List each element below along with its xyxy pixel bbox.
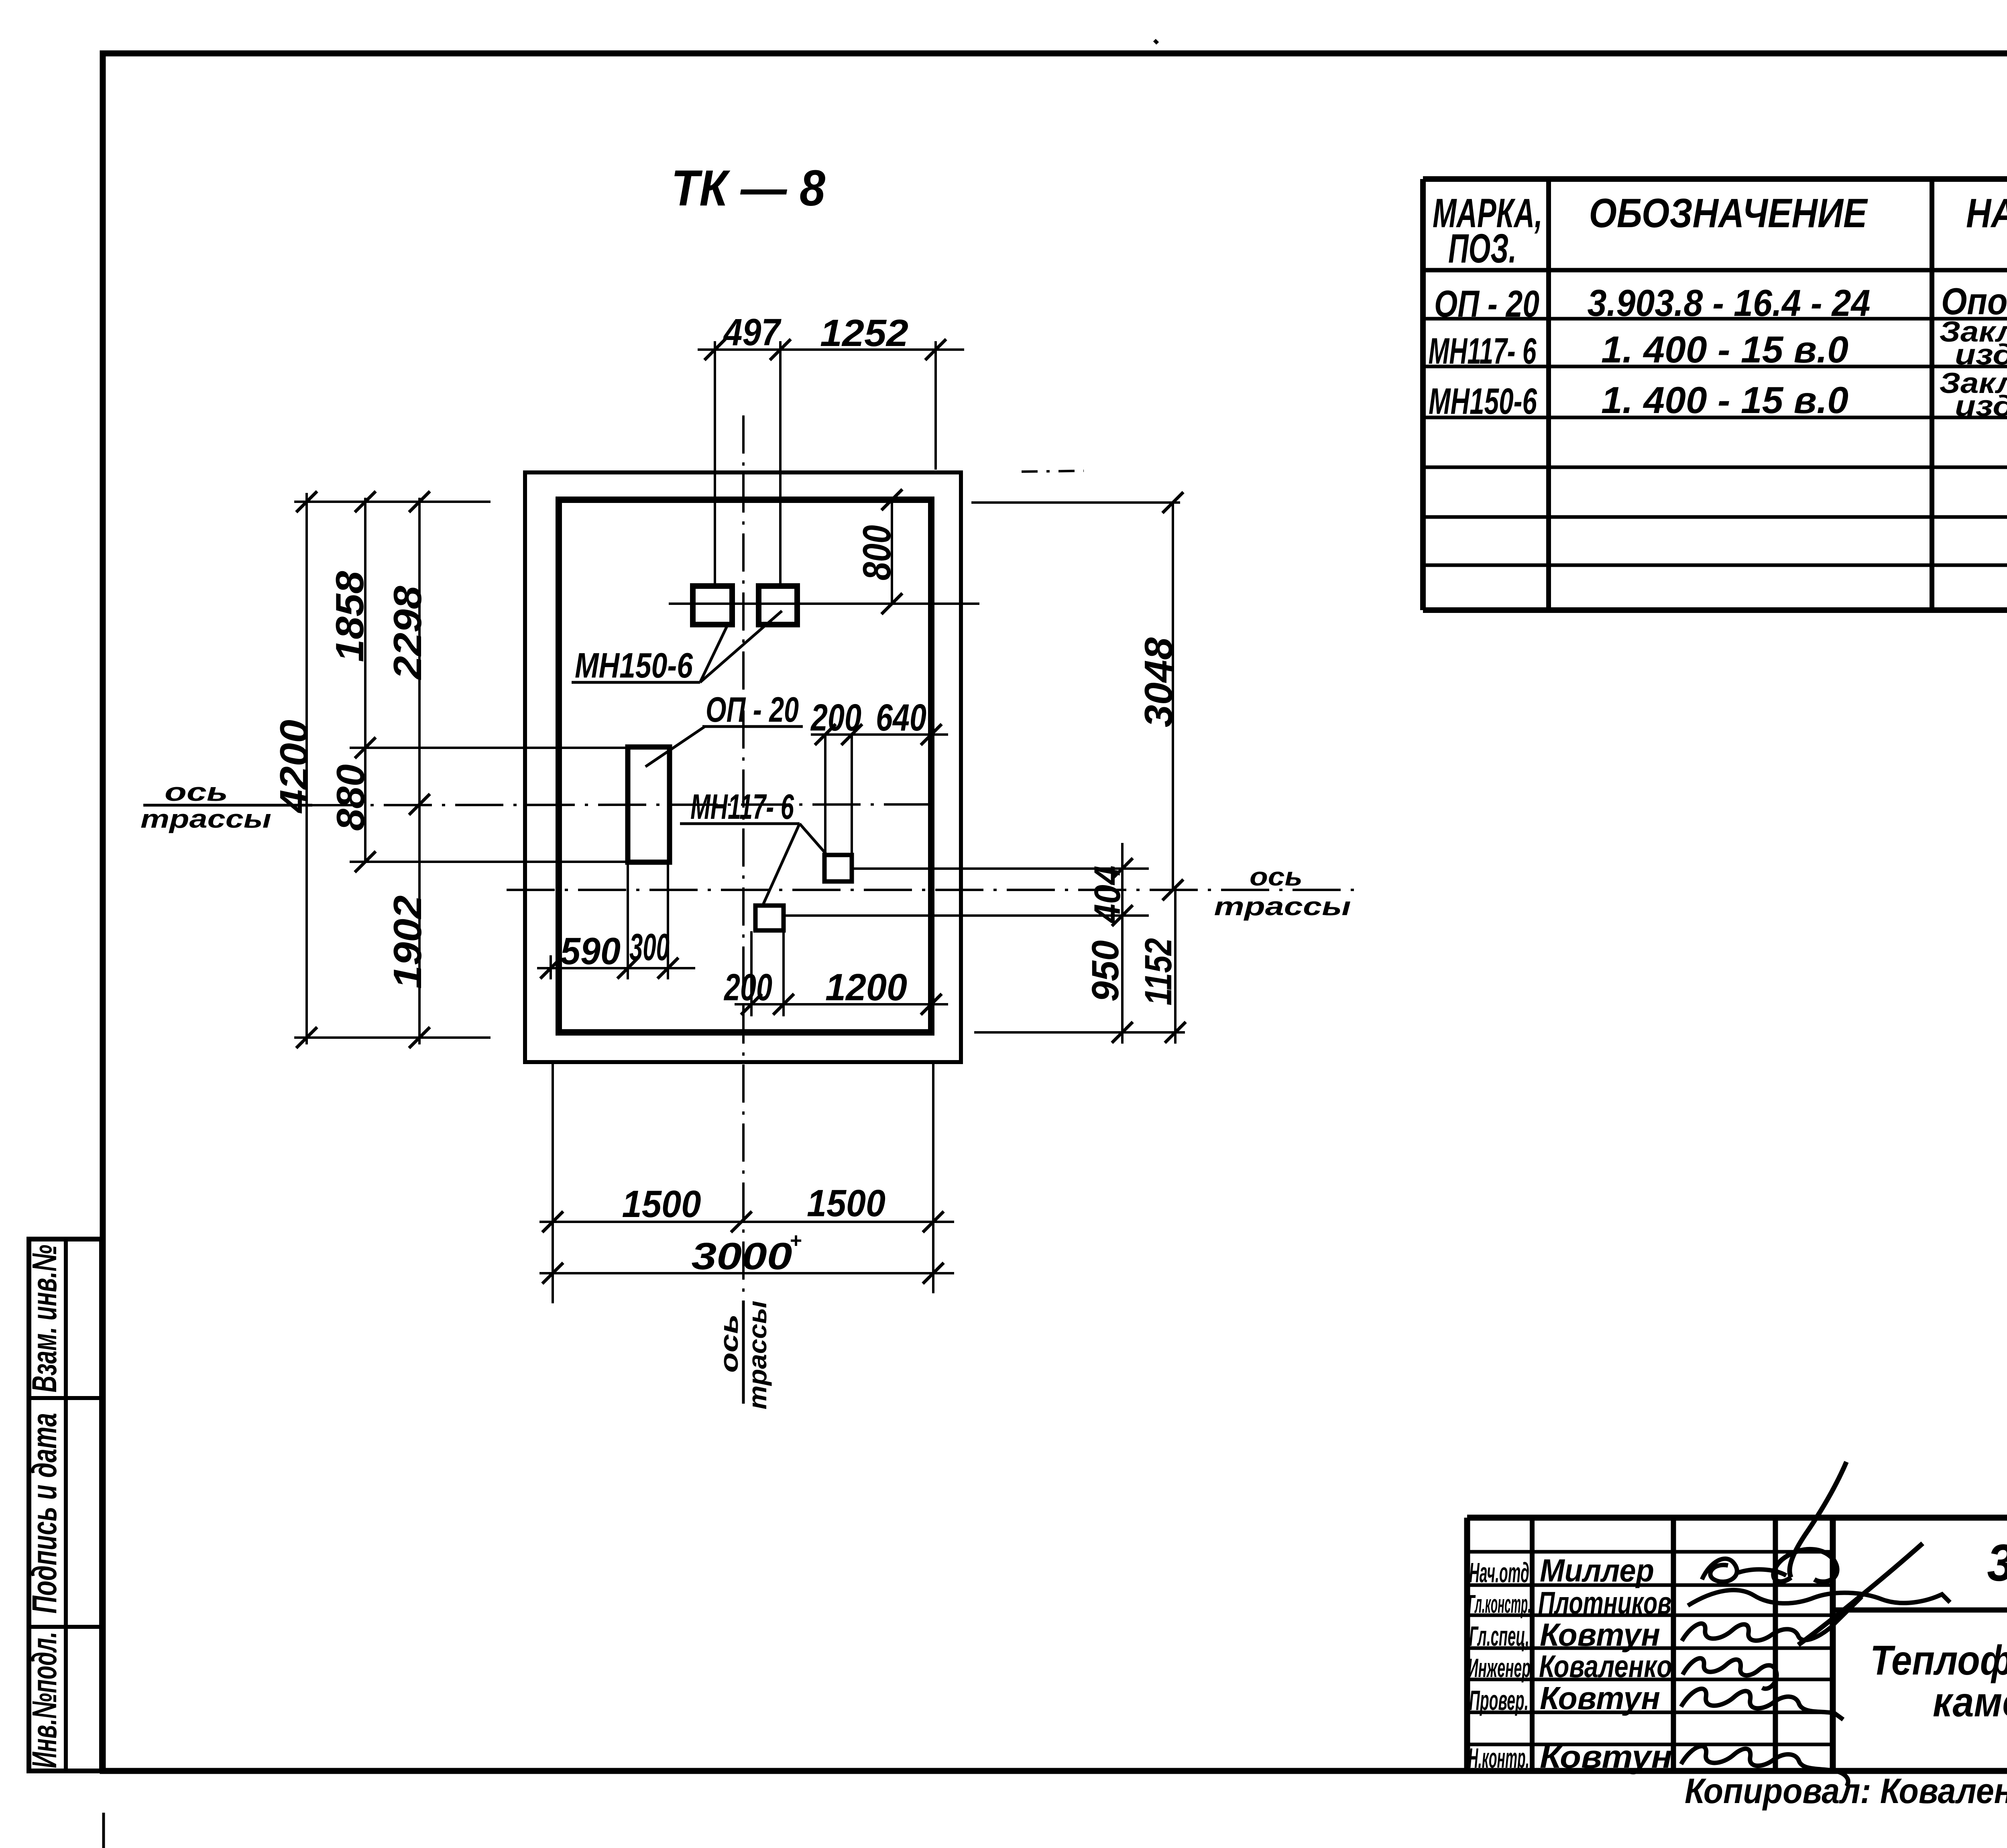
dim line 200 1200 <box>735 1003 948 1005</box>
embed MN150-6 square 2 <box>759 586 797 625</box>
dim line 200 640 <box>811 733 948 736</box>
tick 880 bottom <box>355 851 376 872</box>
tick 1200 right <box>921 994 942 1015</box>
extension MN117-6 bottom center <box>784 914 1149 917</box>
svg-text:Инженер: Инженер <box>1468 1653 1531 1683</box>
vertical axis centerline solid end <box>742 1301 745 1404</box>
extension OP-20 top <box>350 747 627 749</box>
tick 3000 left <box>542 1263 563 1284</box>
svg-text:МН150-6: МН150-6 <box>575 645 693 685</box>
right trace axis centerline <box>507 889 1361 891</box>
dim 640 extension a <box>824 734 826 853</box>
svg-text:590: 590 <box>560 930 621 973</box>
dim 590 extension b <box>627 863 629 979</box>
dim 590 extension a <box>550 955 552 979</box>
svg-text:3000: 3000 <box>692 1235 792 1278</box>
svg-text:ось: ось <box>714 1314 743 1373</box>
label MN117-6 underline <box>680 822 800 825</box>
chamber outer wall <box>525 472 961 1062</box>
top dimension line 497 1252 <box>698 348 964 351</box>
svg-text:ось: ось <box>165 777 228 806</box>
svg-text:1902: 1902 <box>385 896 429 989</box>
chamber inner wall <box>559 500 931 1032</box>
signature kovtun prover <box>1681 1689 1843 1720</box>
svg-text:1. 400 - 15 в.0: 1. 400 - 15 в.0 <box>1601 328 1848 370</box>
dim line 3048 <box>1172 502 1174 891</box>
spec table row line 6 <box>1423 564 2007 567</box>
signature plotnikov <box>1688 1590 1950 1606</box>
leader MN150-6 to sq1 <box>700 623 729 682</box>
title block col names <box>1671 1518 1676 1771</box>
svg-text:МН117- 6: МН117- 6 <box>690 787 794 826</box>
tick 3000 right <box>923 1263 944 1284</box>
spec table bottom border <box>1423 607 2007 613</box>
dim line 800 <box>891 499 893 604</box>
vertical axis centerline <box>742 415 745 1301</box>
label MN150-6 underline <box>572 681 700 684</box>
left dim line A 4200 <box>305 493 308 1044</box>
tick 404 top <box>1112 858 1133 879</box>
svg-text:640: 640 <box>876 696 926 739</box>
squares centerline extension <box>669 602 979 605</box>
spec table left border <box>1420 179 1426 610</box>
title block row line 3 <box>1467 1614 1833 1617</box>
spec table col line marka <box>1546 179 1551 610</box>
leader OP-20 <box>645 727 705 767</box>
svg-text:МН117- 6: МН117- 6 <box>1429 331 1537 372</box>
top dim extension sq1 <box>714 341 716 587</box>
title block row line 6 <box>1467 1711 1833 1714</box>
title block row line 7 <box>1467 1743 1833 1746</box>
svg-text:Инв.№подл.: Инв.№подл. <box>25 1632 64 1768</box>
svg-text:ОП - 20: ОП - 20 <box>1434 283 1539 325</box>
dim line 590 300 <box>537 967 695 969</box>
bottom extension left 1500 <box>552 1064 554 1303</box>
label OP-20 underline <box>702 725 803 728</box>
svg-text:Ковтун: Ковтун <box>1540 1739 1672 1775</box>
svg-text:Взам. инв.№: Взам. инв.№ <box>25 1245 64 1392</box>
svg-text:Нач.отд: Нач.отд <box>1469 1557 1529 1588</box>
left trace axis centerline solid part <box>143 804 312 807</box>
tick 1858 top <box>355 491 376 512</box>
tick 1500 left <box>542 1211 563 1232</box>
tick 800 bottom <box>881 593 902 614</box>
bottom right extension line <box>974 1031 1185 1034</box>
left dim line B 1858 880 <box>364 498 366 863</box>
tick 497 right <box>770 339 791 360</box>
tick 4200 top <box>296 491 317 512</box>
top dim extension right <box>934 341 937 470</box>
left trace axis centerline <box>312 804 939 805</box>
svg-text:Плотников: Плотников <box>1538 1585 1671 1620</box>
svg-text:+: + <box>790 1229 802 1252</box>
svg-text:Провер.: Провер. <box>1469 1685 1529 1716</box>
svg-text:Подпись и дата: Подпись и дата <box>25 1413 64 1614</box>
svg-text:200: 200 <box>723 966 772 1009</box>
tick 1152 bottom <box>1165 1022 1186 1043</box>
title block top border <box>1467 1515 2007 1521</box>
tick 200b right <box>841 724 862 745</box>
tick 590 left <box>540 958 561 979</box>
tick 1902 bottom <box>409 1027 430 1048</box>
left top extension line <box>294 501 491 503</box>
spec table row line 2 <box>1423 365 2007 368</box>
svg-text:камера ТК-8: камера ТК-8 <box>1933 1679 2007 1726</box>
signature kovtun nkontr <box>1681 1746 1848 1786</box>
tick 800 top <box>881 489 902 510</box>
svg-text:1200: 1200 <box>825 966 907 1009</box>
stray dot above frame <box>1154 40 1158 43</box>
tick 4200 bottom <box>296 1027 317 1048</box>
tick 590 right <box>617 958 638 979</box>
dim 640 extension b <box>851 734 853 853</box>
doc number cell bottom <box>1833 1608 2007 1613</box>
svg-text:3.903.8 - 16.4 - 8: 3.903.8 - 16.4 - 8 <box>1987 1533 2007 1592</box>
svg-text:Ковтун: Ковтун <box>1540 1617 1660 1653</box>
spec table header bottom line <box>1423 268 2007 273</box>
title block row line 1 <box>1467 1550 1833 1554</box>
svg-text:404: 404 <box>1087 866 1128 924</box>
svg-text:трассы: трассы <box>743 1301 772 1410</box>
svg-text:4200: 4200 <box>272 720 316 814</box>
tick 3048 top <box>1162 492 1183 513</box>
dim line 1152 <box>1174 891 1177 1044</box>
svg-text:200: 200 <box>810 696 861 739</box>
tick 1858 bottom <box>355 737 376 758</box>
svg-text:1858: 1858 <box>328 571 372 662</box>
svg-text:950: 950 <box>1084 940 1127 1002</box>
svg-text:800: 800 <box>855 525 899 580</box>
left strip outer box <box>29 1239 102 1771</box>
svg-text:1500: 1500 <box>807 1182 885 1225</box>
tick 1500 mid <box>731 1211 752 1232</box>
tick 300 right <box>657 958 678 979</box>
svg-text:Н.контр.: Н.контр. <box>1468 1742 1529 1774</box>
tick 497 left <box>704 339 725 360</box>
bottom extension right 1500 <box>932 1064 934 1293</box>
svg-text:3048: 3048 <box>1136 637 1181 727</box>
signature kovalenko <box>1683 1658 1777 1689</box>
svg-text:Теплофикационная: Теплофикационная <box>1870 1637 2007 1684</box>
tick 200b left <box>815 724 836 745</box>
spec table row line 5 <box>1423 515 2007 519</box>
title block row line 2 <box>1467 1583 1833 1587</box>
tick 640 right <box>921 724 942 745</box>
dim 200 extension b <box>782 931 785 1016</box>
svg-text:Гл.констр.: Гл.констр. <box>1468 1590 1531 1618</box>
svg-text:ПОЗ.: ПОЗ. <box>1448 226 1516 271</box>
svg-text:Гл.спец,: Гл.спец, <box>1469 1620 1529 1652</box>
tick 2298 top <box>409 491 430 512</box>
svg-text:изделие: изделие <box>1955 390 2007 422</box>
svg-text:трассы: трассы <box>140 804 271 833</box>
svg-text:1252: 1252 <box>820 312 908 354</box>
tick 1252 right <box>925 339 946 360</box>
tick 404 bottom <box>1112 905 1133 926</box>
embed MN150-6 square 1 <box>693 586 732 625</box>
tick 950 bottom <box>1112 1022 1133 1043</box>
svg-text:1. 400 - 15 в.0: 1. 400 - 15 в.0 <box>1601 379 1848 421</box>
svg-text:880: 880 <box>328 764 372 831</box>
svg-text:ТК — 8: ТК — 8 <box>671 160 825 216</box>
svg-text:300: 300 <box>629 926 670 969</box>
dim line 3000 <box>539 1272 954 1274</box>
dim 200 extension a <box>750 931 753 1016</box>
tick 1500 right <box>923 1211 944 1232</box>
svg-text:Миллер: Миллер <box>1540 1553 1654 1588</box>
tick 200a left <box>741 994 762 1015</box>
left strip mid vertical <box>64 1239 68 1771</box>
extension OP-20 bottom <box>350 861 627 863</box>
spec table top border <box>1423 176 2007 182</box>
extension MN117-6 right center <box>853 867 1149 870</box>
svg-text:1500: 1500 <box>622 1183 701 1225</box>
title block row line 5 <box>1467 1678 1833 1681</box>
svg-text:ОП - 20: ОП - 20 <box>706 690 799 729</box>
left bottom extension line <box>294 1036 491 1039</box>
left dim line C 2298 1902 <box>418 498 421 1044</box>
title block col date <box>1830 1518 1836 1771</box>
svg-text:2298: 2298 <box>385 586 429 680</box>
title block left border <box>1464 1518 1470 1771</box>
svg-text:изделие: изделие <box>1955 339 2007 371</box>
stray mark below frame left <box>102 1813 105 1848</box>
svg-text:НАИМЕНОВАНИЕ: НАИМЕНОВАНИЕ <box>1966 190 2007 236</box>
spec table row line 4 <box>1423 466 2007 469</box>
svg-text:трассы: трассы <box>1214 892 1351 921</box>
inner top extension right <box>971 501 1180 504</box>
dim line 404 950 <box>1121 843 1124 1044</box>
svg-text:1152: 1152 <box>1137 938 1180 1005</box>
signature kovtun gl spec <box>1682 1597 1862 1641</box>
svg-text:ось: ось <box>1250 862 1303 891</box>
signature flourish rows 1-2 <box>1790 1462 1846 1577</box>
dim 590 extension c <box>667 863 669 979</box>
stray dash-dot at outer top right <box>1022 471 1084 472</box>
tick 2298 bottom <box>409 794 430 815</box>
embed MN117-6 right <box>824 855 852 881</box>
left strip divider 1 <box>29 1396 102 1400</box>
title block col signatures <box>1773 1518 1778 1771</box>
svg-text:МН150-6: МН150-6 <box>1429 381 1537 422</box>
svg-text:Коваленко: Коваленко <box>1539 1649 1672 1684</box>
title block row line 4 <box>1467 1647 1833 1650</box>
tick 3048 bottom <box>1162 879 1183 900</box>
top dim extension sq2 <box>779 341 782 587</box>
leader MN117-6 to right square <box>800 824 828 856</box>
svg-text:3.903.8 - 16.4 - 24: 3.903.8 - 16.4 - 24 <box>1588 282 1871 324</box>
left strip divider 2 <box>29 1625 102 1629</box>
svg-text:Ковтун: Ковтун <box>1540 1680 1660 1716</box>
embed MN117-6 bottom <box>755 906 784 930</box>
title block col labels <box>1530 1518 1535 1771</box>
spec table row line 1 <box>1423 317 2007 321</box>
tick 200a right <box>773 994 794 1015</box>
leader MN150-6 to sq2 <box>700 611 782 682</box>
support OP-20 <box>628 747 670 862</box>
svg-text:497: 497 <box>723 311 782 354</box>
leader MN117-6 to bottom square <box>763 824 800 906</box>
spec table col line oboznachenie <box>1930 179 1934 610</box>
spec table row line 3 <box>1423 416 2007 419</box>
svg-text:ОБОЗНАЧЕНИЕ: ОБОЗНАЧЕНИЕ <box>1589 190 1869 236</box>
dim line 1500 1500 <box>539 1221 954 1223</box>
